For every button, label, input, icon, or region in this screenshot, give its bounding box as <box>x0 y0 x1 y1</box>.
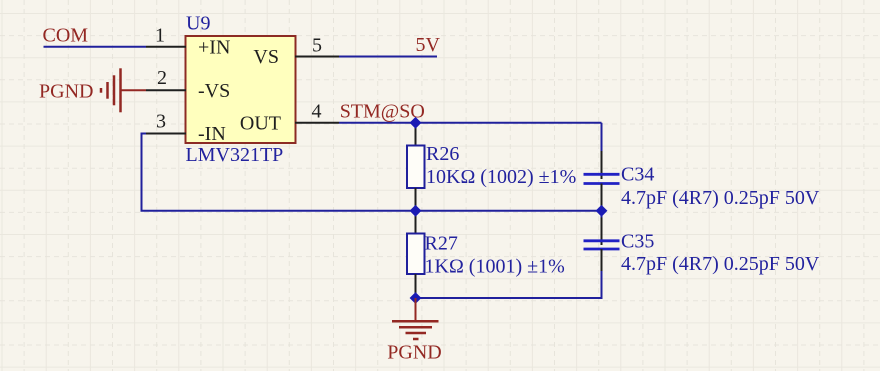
op-amp U9 LMV321TP <box>186 13 296 166</box>
R27 top pin <box>415 211 417 234</box>
R26 bottom pin <box>415 188 417 211</box>
C34 top pin <box>601 151 603 179</box>
svg-text:2: 2 <box>157 67 167 89</box>
junction node STM@SO / R26 <box>410 117 422 129</box>
wire C35 to bottom wire <box>601 271 603 298</box>
svg-text:1: 1 <box>155 25 165 47</box>
pin 3 (-IN) <box>146 111 226 146</box>
svg-text:10KΩ (1002) ±1%: 10KΩ (1002) ±1% <box>426 166 576 188</box>
wire pin 5 to 5V <box>339 56 437 58</box>
svg-text:PGND: PGND <box>387 342 441 364</box>
power ground PGND (pin 2) <box>39 68 146 112</box>
svg-text:PGND: PGND <box>39 80 93 102</box>
svg-text:STM@SO: STM@SO <box>340 100 425 122</box>
svg-text:3: 3 <box>156 111 166 133</box>
svg-text:5: 5 <box>312 35 322 57</box>
R27 bottom pin <box>415 274 417 298</box>
svg-text:4.7pF (4R7) 0.25pF 50V: 4.7pF (4R7) 0.25pF 50V <box>621 253 820 275</box>
pin 2 (-VS) <box>146 67 230 102</box>
svg-text:-IN: -IN <box>198 123 226 145</box>
junction node mid / C34-C35 <box>596 205 608 217</box>
C34 bottom pin <box>601 184 603 207</box>
C35 top pin <box>601 218 603 246</box>
svg-text:4: 4 <box>312 101 322 123</box>
svg-text:VS: VS <box>253 46 279 68</box>
wire pin 4 to node (STM@SO) <box>339 122 602 124</box>
pin 5 (VS) <box>253 35 339 69</box>
svg-text:+IN: +IN <box>198 36 230 58</box>
wire node to R26 top <box>415 123 417 146</box>
wire node to C35 <box>601 211 603 218</box>
svg-text:R26: R26 <box>426 143 459 165</box>
junction node bottom / PGND <box>410 292 422 304</box>
svg-text:C35: C35 <box>621 230 654 252</box>
junction node mid / R26-R27 <box>410 205 422 217</box>
svg-text:C34: C34 <box>621 163 654 185</box>
wire node to C34 <box>601 123 603 151</box>
resistor R26 <box>407 143 576 188</box>
capacitor C35 <box>584 230 820 275</box>
bottom wire <box>416 271 602 298</box>
pin 1 (+IN) <box>146 25 230 59</box>
svg-text:LMV321TP: LMV321TP <box>186 144 284 166</box>
C35 bottom pin <box>601 249 603 271</box>
svg-text:U9: U9 <box>186 13 210 35</box>
svg-text:-VS: -VS <box>198 80 230 102</box>
svg-text:OUT: OUT <box>240 112 281 134</box>
wire pin 3 feedback loop <box>142 134 602 211</box>
svg-text:1KΩ (1001) ±1%: 1KΩ (1001) ±1% <box>425 255 565 277</box>
ground PGND (bottom) <box>387 298 441 364</box>
wire COM to pin 1 <box>44 46 147 48</box>
capacitor C34 <box>584 163 820 209</box>
resistor R27 <box>407 233 565 278</box>
svg-text:COM: COM <box>43 25 89 47</box>
svg-text:5V: 5V <box>416 34 441 56</box>
wire C34 to mid wire <box>601 206 603 211</box>
svg-text:4.7pF (4R7) 0.25pF 50V: 4.7pF (4R7) 0.25pF 50V <box>621 187 820 209</box>
pin 4 (OUT) <box>240 101 339 135</box>
svg-text:R27: R27 <box>425 233 458 255</box>
